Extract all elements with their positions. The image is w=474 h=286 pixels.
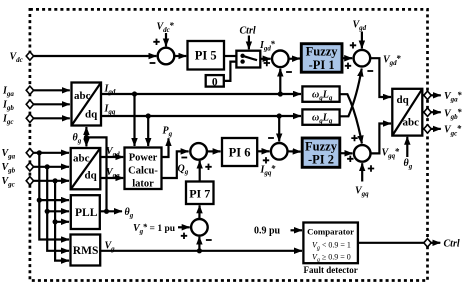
svg-text:PLL: PLL	[75, 207, 98, 219]
wire Igd row	[101, 93, 301, 95]
svg-text:Fuzzy: Fuzzy	[305, 139, 338, 153]
wire Vgc input	[33, 180, 69, 182]
block PI 5	[188, 41, 225, 70]
svg-text:PI 5: PI 5	[195, 49, 217, 63]
wire cross diagonal lower-to-C	[340, 69, 362, 117]
svg-text:Fault detector: Fault detector	[304, 265, 358, 275]
sign minus A	[150, 62, 156, 64]
block dq/abc inverse transform	[392, 89, 422, 136]
sign minus E	[268, 137, 274, 139]
wire comparator to Ctrl port	[358, 242, 424, 244]
wire C to dq/abc	[370, 58, 391, 97]
svg-text:Ctrl: Ctrl	[240, 26, 256, 37]
block Power Calculator	[125, 148, 162, 190]
svg-text:Calcu-: Calcu-	[128, 166, 158, 177]
wire PI7 to sum D	[199, 161, 201, 182]
port Vga	[26, 149, 33, 157]
port Vdc	[26, 52, 33, 60]
sign plus F left	[347, 156, 353, 162]
wire Fuzzy-PI2 to sum F	[340, 152, 353, 154]
wire Vga* output	[422, 94, 424, 96]
wire Igc input	[33, 117, 70, 119]
sum junction B	[272, 51, 289, 68]
svg-text:Fuzzy: Fuzzy	[306, 45, 339, 59]
sign plus D	[205, 164, 211, 170]
svg-text:RMS: RMS	[73, 245, 99, 257]
port Vgc*	[424, 125, 431, 133]
port Iga	[26, 86, 33, 94]
wire Vdc input	[33, 55, 156, 57]
wire cross diagonal upper-to-F	[340, 94, 362, 143]
wire D to PI6	[207, 150, 221, 152]
block PI 6	[222, 138, 257, 166]
wire Igq row	[101, 115, 301, 117]
block omega-g L-g lower	[302, 109, 339, 125]
port Igc	[26, 114, 33, 122]
sign minus G	[206, 239, 212, 241]
port Vgb*	[424, 108, 431, 116]
wire PI6 to sum E	[257, 150, 269, 152]
wire Igd feedback up to sum B	[279, 69, 281, 94]
svg-text:-PI 2: -PI 2	[308, 153, 334, 167]
wire Ctrl into switch	[248, 36, 250, 50]
block abc/dq current transform	[72, 83, 102, 126]
wire Vg* into sum G	[178, 226, 190, 228]
svg-text:lator: lator	[132, 179, 154, 190]
wire Iga input	[33, 89, 70, 91]
wire G to PI7	[198, 205, 200, 219]
svg-text:abc: abc	[73, 152, 90, 164]
svg-text:0.9 pu: 0.9 pu	[254, 225, 281, 236]
junction dot Igd-PC	[132, 91, 137, 96]
sign minus D	[181, 157, 187, 159]
svg-text:PI 6: PI 6	[229, 145, 251, 159]
block PI 7	[186, 182, 214, 205]
wire Vgd into sum C	[361, 32, 363, 49]
wire E to Fuzzy-PI2	[288, 150, 301, 153]
sum junction D	[190, 143, 207, 160]
sum junction A	[158, 48, 175, 65]
port Igb	[26, 100, 33, 108]
wire PI5 to switch	[224, 55, 236, 57]
junction dot Vg	[197, 248, 202, 253]
wire Fuzzy-PI1 to sum C	[342, 57, 352, 59]
wire B to Fuzzy-PI1	[289, 57, 300, 59]
junction dot Igq-PC	[146, 113, 151, 118]
wire 0.9pu into comparator	[291, 229, 303, 231]
sign plus F top	[351, 135, 357, 141]
svg-text:0: 0	[212, 76, 218, 88]
block abc/dq voltage transform	[71, 148, 101, 189]
wire Igq feedback down to sum E	[278, 116, 280, 141]
block zero constant	[206, 75, 224, 88]
wire theta-g from PLL up to transforms	[100, 210, 122, 212]
sign plus C top	[350, 42, 356, 48]
svg-text:Comparator: Comparator	[307, 227, 354, 237]
wire Igb input	[33, 103, 70, 105]
wire bus Vgb to PLL and RMS	[47, 167, 69, 212]
sign plus E	[263, 157, 269, 163]
wire bus Vgc to PLL and RMS	[55, 181, 69, 222]
wire switch to sum B	[260, 58, 270, 60]
dashed system boundary	[30, 9, 428, 280]
sum junction F	[354, 145, 371, 162]
sign plus C left	[345, 63, 351, 69]
svg-text:Power: Power	[129, 153, 158, 164]
block Fuzzy-PI 2	[302, 138, 340, 167]
sum junction C	[354, 50, 371, 67]
sign minus C bottom	[367, 70, 373, 72]
svg-text:abc: abc	[403, 116, 420, 128]
svg-text:Ctrl: Ctrl	[444, 239, 460, 250]
port Vgc	[26, 177, 33, 185]
wire Vgb* output	[422, 111, 424, 113]
wire Igd down to Power Calculator	[133, 94, 135, 146]
svg-text:PI 7: PI 7	[189, 187, 210, 201]
block switch	[236, 51, 260, 68]
wire F to dq/abc	[371, 124, 392, 154]
wire Vgq into sum F	[361, 163, 363, 181]
wire Vgd to Power Calculator	[100, 156, 123, 158]
wire zero to switch	[224, 62, 241, 81]
block RMS	[71, 235, 101, 266]
wire Vg feedback into G	[198, 237, 200, 251]
wire theta-g into dq/abc	[406, 137, 408, 157]
svg-text:-PI 1: -PI 1	[309, 58, 335, 72]
svg-text:dq: dq	[85, 108, 98, 120]
wire Vgb input	[33, 166, 69, 168]
port Vga*	[424, 91, 431, 99]
port Vgb	[26, 163, 33, 171]
sign plus G	[181, 233, 187, 239]
block omega-g L-g upper	[302, 86, 339, 102]
block Fuzzy-PI 1	[301, 44, 342, 72]
wire Pg output	[162, 138, 169, 157]
wire Vg line RMS to comparator	[100, 250, 302, 252]
block PLL	[71, 195, 100, 229]
wire Vgq to Power Calculator	[100, 177, 123, 179]
sum junction E	[271, 143, 288, 160]
svg-text:Vg* = 1 pu: Vg* = 1 pu	[133, 222, 176, 236]
block Comparator / fault detector	[303, 223, 358, 264]
sign plus A	[153, 39, 159, 45]
sign plus F bottom	[368, 165, 374, 171]
wire Vdc* into sum A	[165, 33, 167, 46]
sign minus B	[286, 71, 292, 73]
sum junction G	[191, 219, 208, 236]
wire Qg to sum D	[162, 151, 189, 178]
junction dots on voltage buses	[37, 150, 42, 155]
wire A to PI5	[174, 55, 186, 57]
svg-text:abc: abc	[74, 90, 91, 102]
svg-text:dq: dq	[85, 170, 98, 182]
port Ctrl	[424, 239, 431, 247]
svg-text:dq: dq	[397, 94, 410, 106]
wire bus Vga to PLL and RMS	[39, 153, 69, 200]
sign plus B	[264, 60, 270, 66]
wire Igq down to Power Calculator	[147, 116, 149, 146]
wire Vga input	[33, 152, 69, 154]
wire Vgc* output	[422, 128, 424, 130]
